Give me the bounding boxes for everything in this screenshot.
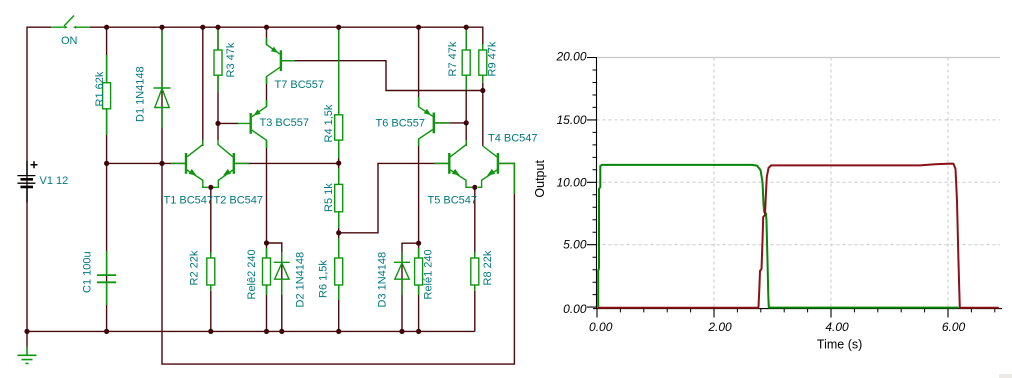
transistor T5: [435, 140, 473, 187]
node top rail junctions: [104, 25, 109, 30]
svg-text:T1 BC547: T1 BC547: [164, 195, 214, 207]
node T4/T5 emitters: [472, 185, 477, 190]
battery V1: [17, 161, 37, 203]
svg-text:4.00: 4.00: [825, 320, 849, 334]
node A R1/C1/T1 base: [104, 161, 109, 166]
plot x minor ticks: [620, 309, 994, 313]
svg-text:T4 BC547: T4 BC547: [488, 133, 538, 145]
trace green Output: [598, 165, 958, 308]
svg-text:0.00: 0.00: [563, 302, 587, 316]
svg-text:6.00: 6.00: [942, 320, 966, 334]
node T6 base / R7 / T5 collector: [464, 120, 469, 125]
resistor R6: [335, 238, 343, 300]
diode D1: [154, 31, 171, 128]
wire T1 collector column: [202, 27, 204, 146]
svg-text:Relê2 240: Relê2 240: [246, 249, 258, 299]
svg-text:R4 1,5k: R4 1,5k: [323, 104, 335, 142]
relay coil Rele2: [263, 248, 271, 295]
node R9 bottom / T7 base / T4 collector: [480, 88, 485, 93]
resistor R7: [462, 30, 470, 90]
svg-text:R8 22k: R8 22k: [482, 250, 494, 285]
svg-text:Relé1 240: Relé1 240: [423, 249, 435, 299]
svg-text:0.00: 0.00: [589, 320, 613, 334]
wire R1/C1 column: [106, 27, 108, 331]
resistor R3: [214, 30, 222, 92]
wire emitter node to R8: [474, 187, 476, 331]
svg-text:D3 1N4148: D3 1N4148: [377, 252, 389, 308]
node R5/R6 jog: [336, 230, 341, 235]
plot y major ticks: [587, 58, 597, 308]
svg-text:T3 BC557: T3 BC557: [260, 117, 310, 129]
transistor T1: [171, 140, 208, 187]
plot vertical gridlines: [714, 58, 948, 309]
svg-text:20.00: 20.00: [555, 50, 586, 64]
wire emitter node to R2: [210, 187, 212, 331]
svg-text:T2 BC547: T2 BC547: [214, 195, 264, 207]
svg-text:R5 1k: R5 1k: [323, 183, 335, 212]
svg-text:Output: Output: [533, 160, 547, 198]
resistor R5: [335, 168, 343, 228]
svg-text:10.00: 10.00: [556, 175, 586, 189]
plot x-axis: [593, 308, 1002, 310]
plot horizontal gridlines: [597, 120, 1001, 245]
node bus junctions: [24, 329, 29, 334]
plot y-axis: [596, 57, 598, 309]
transistor T3: [238, 100, 267, 148]
wire left rail: [27, 27, 51, 331]
svg-text:R3 47k: R3 47k: [225, 42, 237, 77]
node D1 / T1 base / loop: [159, 161, 164, 166]
resistor R9: [479, 44, 487, 83]
wire T6 base to R7 bottom: [434, 122, 466, 124]
svg-text:15.00: 15.00: [556, 113, 586, 127]
svg-text:R2 22k: R2 22k: [189, 250, 201, 285]
wire R5/R6 node jog to T5 base: [339, 163, 450, 232]
wire D3 branch: [402, 243, 419, 331]
wire R4/R5/R6 column: [338, 27, 340, 331]
node T3 collector / Rele2 / D2: [264, 240, 269, 245]
wire T7 base to R9 bottom / T4 collector: [281, 61, 483, 91]
wire D1 column and outer feedback loop to T4 base: [162, 27, 514, 364]
ground: [18, 347, 37, 363]
node T1/T2 emitters: [208, 185, 213, 190]
plot x major ticks: [597, 309, 948, 318]
wire ground bus: [27, 330, 475, 332]
wire R3 / T2 collector / T3 base column: [218, 27, 238, 140]
plot top border: [597, 57, 1001, 59]
wire T6 emitter/collector column: [418, 27, 420, 331]
resistor R4: [335, 30, 343, 158]
svg-text:D2 1N4148: D2 1N4148: [295, 252, 307, 308]
resistor R8: [471, 252, 479, 291]
capacitor C1: [97, 251, 116, 305]
svg-text:R6 1,5k: R6 1,5k: [318, 260, 330, 298]
svg-text:2.00: 2.00: [707, 320, 732, 334]
wire node A to T1 base: [107, 162, 186, 164]
wire T7/T3 column: [266, 27, 268, 331]
diode D2: [274, 252, 290, 295]
transistor T2: [213, 140, 249, 187]
transistor T6: [419, 97, 450, 146]
svg-text:R9 47k: R9 47k: [487, 41, 499, 76]
svg-text:V1 12: V1 12: [40, 175, 69, 187]
svg-text:T6 BC557: T6 BC557: [376, 118, 426, 130]
corner resize box: [999, 374, 1012, 378]
svg-text:R1 62k: R1 62k: [94, 71, 106, 106]
svg-text:Time (s): Time (s): [817, 338, 862, 352]
svg-text:D1 1N4148: D1 1N4148: [135, 66, 147, 122]
resistor R1: [103, 55, 111, 135]
svg-text:ON: ON: [61, 35, 78, 47]
wire D2 branch: [267, 243, 282, 331]
wire T2 base to R4/R5 node: [234, 162, 339, 164]
wire top rail: [90, 27, 483, 146]
transistor T4: [478, 146, 514, 194]
relay coil Rele1: [415, 248, 423, 295]
svg-text:T7 BC557: T7 BC557: [275, 79, 325, 91]
svg-text:R7 47k: R7 47k: [447, 41, 459, 76]
wire R7 / T5 collector column: [465, 27, 467, 146]
node R4/R5/T2 base: [336, 161, 341, 166]
wire ground stub: [26, 331, 28, 347]
svg-text:5.00: 5.00: [563, 238, 587, 252]
node T6 collector / Rele1 / D3: [416, 241, 421, 246]
svg-text:T5 BC547: T5 BC547: [428, 195, 478, 207]
trace maroon Output: [598, 164, 999, 308]
transistor T7: [267, 38, 296, 84]
resistor R2: [207, 252, 215, 291]
node T3 base / R3 / T2 collector: [215, 121, 220, 126]
svg-text:C1 100u: C1 100u: [82, 251, 94, 293]
diode D3: [394, 252, 410, 295]
plot y minor ticks: [593, 70, 597, 295]
switch ON: [51, 16, 90, 29]
